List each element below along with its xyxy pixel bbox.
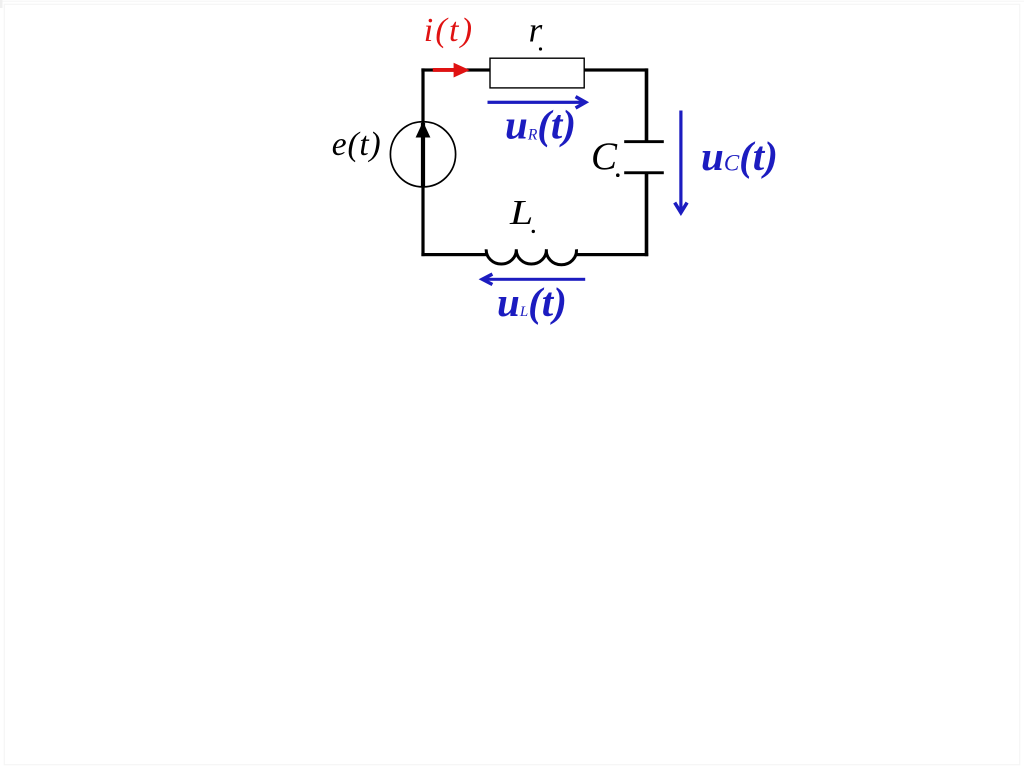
svg-text:i(t): i(t) <box>424 12 475 49</box>
svg-text:C: C <box>591 135 618 178</box>
svg-text:uC(t): uC(t) <box>701 133 778 179</box>
wire: left vertical branch <box>421 68 424 256</box>
svg-text:e(t): e(t) <box>332 126 382 163</box>
voltage source E1 arrowhead <box>416 122 431 138</box>
voltage arrow uL(t) <box>483 278 585 281</box>
wire: right vertical upper (to capacitor top plate) <box>645 68 649 141</box>
voltage arrow uC(t) <box>679 111 682 212</box>
resistor r <box>490 58 584 88</box>
corner smudge <box>0 0 3 8</box>
dot after r <box>539 47 542 50</box>
dot after C <box>616 173 620 177</box>
wire: right vertical lower (from capacitor bottom plate) <box>645 173 649 257</box>
current direction arrow i(t) <box>433 68 456 72</box>
wire: top segment left of resistor <box>421 68 490 71</box>
wire: bottom segment left of inductor <box>421 253 487 256</box>
svg-text:uR(t): uR(t) <box>505 102 576 148</box>
svg-text:uL(t): uL(t) <box>497 279 567 325</box>
voltage source E1 e(t) circle <box>390 122 455 187</box>
voltage source E1 arrow shaft <box>421 123 425 187</box>
voltage arrow uR(t) <box>488 101 585 104</box>
faint top rule <box>0 1 1024 2</box>
inductor L coil arcs <box>486 249 576 264</box>
dot after L <box>532 230 535 233</box>
wire: top segment right of resistor <box>584 68 648 71</box>
wire: bottom segment right of inductor <box>576 253 649 256</box>
svg-text:L: L <box>509 193 533 232</box>
capacitor C: top plate <box>624 140 664 143</box>
capacitor C: bottom plate <box>624 171 664 174</box>
svg-text:r: r <box>529 11 543 50</box>
